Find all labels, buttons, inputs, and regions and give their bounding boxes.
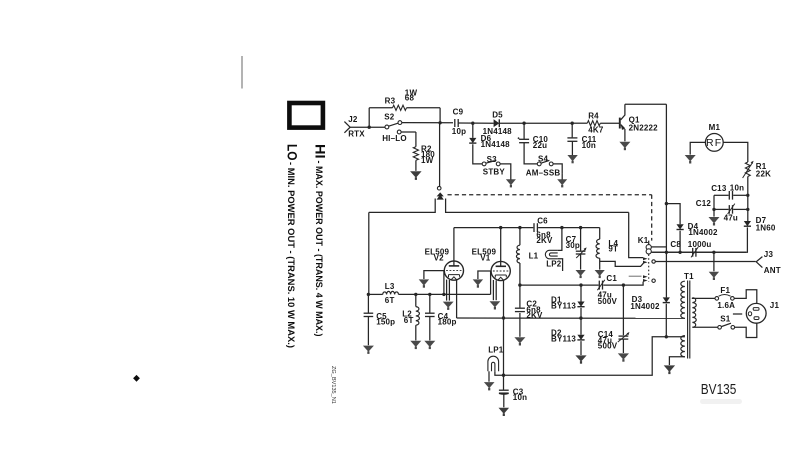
svg-text:1N4002: 1N4002 [688,228,718,237]
svg-text:V2: V2 [434,253,445,262]
svg-text:S4: S4 [538,154,549,163]
svg-text:68: 68 [405,94,415,103]
svg-text:1N4002: 1N4002 [630,302,660,311]
svg-text:R4: R4 [588,111,599,120]
svg-text:C1: C1 [606,274,617,283]
svg-text:6T: 6T [404,316,414,325]
svg-text:C13: C13 [711,184,727,193]
svg-text:LO: LO [285,144,300,161]
svg-text:RF: RF [706,137,722,149]
svg-text:AM–SSB: AM–SSB [526,169,561,178]
svg-text:22K: 22K [756,170,771,179]
svg-text:4K7: 4K7 [588,126,604,135]
svg-text:BV135: BV135 [701,382,737,398]
svg-text:1000u: 1000u [688,240,712,249]
svg-text:C6: C6 [537,216,548,225]
svg-text:S2: S2 [384,113,395,122]
svg-text:10p: 10p [452,127,466,136]
svg-text:500V: 500V [598,342,618,351]
svg-text:1N60: 1N60 [756,223,776,232]
svg-text:1N4148: 1N4148 [481,140,511,149]
svg-text:L3: L3 [385,282,395,291]
svg-text:9T: 9T [608,245,618,254]
svg-text:L1: L1 [529,251,539,260]
svg-text:LP2: LP2 [546,259,562,268]
svg-text:6T: 6T [385,296,395,305]
svg-text:C9: C9 [453,108,464,117]
svg-text:ZG_BV135_N1: ZG_BV135_N1 [330,366,336,404]
svg-text:F1: F1 [720,286,730,295]
svg-text:BY113: BY113 [551,302,576,311]
svg-text:- MAX. POWER OUT - (TRANS. 4 W: - MAX. POWER OUT - (TRANS. 4 W MAX.) [313,161,324,337]
svg-text:STBY: STBY [483,168,506,177]
svg-text:RTX: RTX [348,129,365,138]
svg-text:10n: 10n [582,141,596,150]
svg-text:- MIN. POWER OUT - (TRANS. 10: - MIN. POWER OUT - (TRANS. 10 W MAX.) [285,162,296,348]
svg-text:30p: 30p [566,241,580,250]
svg-text:10n: 10n [730,183,744,192]
svg-text:HI–LO: HI–LO [382,134,407,143]
svg-text:1W: 1W [421,156,434,165]
svg-text:J3: J3 [764,250,774,259]
svg-text:47u: 47u [724,214,738,223]
svg-text:J2: J2 [348,115,358,124]
svg-text:180p: 180p [438,318,457,327]
svg-text:HI: HI [313,144,328,159]
svg-text:2KV: 2KV [536,236,553,245]
svg-text:R3: R3 [385,96,396,105]
svg-text:LP1: LP1 [488,346,504,355]
svg-text:T1: T1 [684,272,694,281]
svg-text:C8: C8 [670,240,681,249]
svg-text:C12: C12 [696,199,712,208]
svg-text:ANT: ANT [764,266,781,275]
svg-text:S1: S1 [720,314,731,323]
svg-text:10n: 10n [513,393,527,402]
svg-text:BY113: BY113 [551,335,576,344]
svg-text:1.6A: 1.6A [717,301,735,310]
svg-text:22u: 22u [533,141,547,150]
svg-text:S3: S3 [487,155,498,164]
svg-text:V1: V1 [480,254,491,263]
svg-text:K1: K1 [638,236,649,245]
svg-text:2N2222: 2N2222 [629,124,659,133]
svg-text:M1: M1 [709,123,721,132]
svg-text:150p: 150p [376,318,395,327]
svg-text:D5: D5 [492,110,503,119]
svg-text:500V: 500V [598,297,618,306]
svg-text:J1: J1 [770,301,780,310]
svg-text:2KV: 2KV [526,311,543,320]
